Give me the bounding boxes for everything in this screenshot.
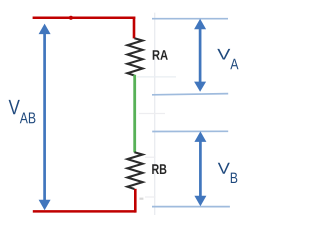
resistor RA bbox=[127, 38, 142, 75]
faint guide horizontal 0 bbox=[137, 76, 176, 78]
label VA bbox=[217, 49, 238, 69]
resistor RB bbox=[127, 152, 142, 189]
wire green bbox=[133, 75, 136, 153]
dimension line VA bottom bbox=[152, 94, 228, 95]
dimension line VB bottom bbox=[152, 206, 230, 208]
wire top red bbox=[33, 17, 136, 20]
tiny gray mark bbox=[139, 198, 143, 200]
faint guide vertical bbox=[154, 13, 156, 215]
dimension line VA top bbox=[152, 18, 228, 20]
label VB bbox=[218, 163, 238, 183]
faint guide horizontal 2 bbox=[145, 156, 156, 158]
arrow VB bbox=[194, 131, 206, 206]
label RA bbox=[153, 50, 168, 60]
arrow VA bbox=[194, 19, 206, 92]
dimension line VB top bbox=[152, 130, 228, 132]
label RB bbox=[152, 164, 166, 174]
wire right top red bbox=[133, 17, 136, 39]
faint guide horizontal 3 bbox=[145, 196, 156, 198]
arrow VAB bbox=[39, 24, 51, 211]
label VAB bbox=[9, 100, 36, 123]
junction dot bbox=[69, 16, 73, 20]
wire bottom red bbox=[33, 210, 136, 213]
faint guide horizontal bbox=[139, 113, 165, 115]
wire right bottom red bbox=[134, 189, 137, 213]
